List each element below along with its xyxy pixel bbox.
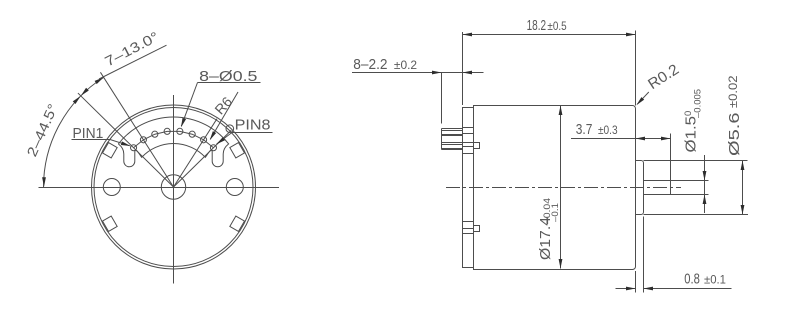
- 0.8 extension lines: [635, 271, 637, 293]
- front boss: [636, 161, 644, 215]
- inner circle housing ID: [94, 108, 253, 267]
- lower-right tab: [230, 216, 245, 231]
- dim line 7-13.0: [99, 45, 167, 79]
- PIN1 leader: [110, 140, 130, 146]
- arrow 44.5 arc top end: [81, 88, 89, 96]
- pin 1 circle: [131, 145, 137, 151]
- pin7 radial line: [174, 119, 218, 187]
- 8-O0.5 leader: [181, 83, 197, 127]
- 3.7 dimension line: [571, 138, 671, 140]
- pin2 radial line: [100, 72, 173, 187]
- svg-text:2–44.5°: 2–44.5°: [23, 101, 60, 159]
- lower tab side view: [474, 226, 480, 232]
- svg-text:–0.1: –0.1: [550, 203, 560, 222]
- svg-text:–0.005: –0.005: [693, 89, 704, 118]
- svg-text:±0.2: ±0.2: [394, 58, 418, 72]
- svg-text:0.8: 0.8: [684, 270, 700, 287]
- svg-text:±0.1: ±0.1: [704, 272, 726, 286]
- upper tab side view: [474, 143, 480, 149]
- svg-text:±0.02: ±0.02: [726, 75, 740, 108]
- R6 leader: [210, 92, 238, 139]
- angular dimension arc: [44, 77, 104, 187]
- arrow 13 arc lower end: [73, 96, 81, 104]
- 8-2.2 dimension line: [352, 72, 442, 74]
- left mounting hole: [103, 179, 120, 196]
- pins comb left edge: [441, 129, 443, 150]
- arrow 13 arc upper end: [95, 77, 104, 84]
- svg-text:7–13.0°: 7–13.0°: [102, 28, 161, 69]
- svg-text:8–2.2: 8–2.2: [353, 56, 387, 73]
- pin pitch polyline: [134, 131, 214, 147]
- 18.2 extension line left: [462, 32, 464, 105]
- svg-text:R6: R6: [211, 93, 235, 117]
- lower-left tab: [103, 216, 118, 231]
- outer circle motor housing OD: [92, 105, 256, 269]
- svg-text:3.7: 3.7: [576, 121, 593, 138]
- svg-text:Ø1.5: Ø1.5: [683, 116, 700, 153]
- PIN8 leader: [217, 133, 232, 145]
- vertical centerline front view: [173, 95, 175, 284]
- pin 2 circle: [140, 137, 146, 143]
- R0.2 leader: [637, 92, 649, 104]
- right mounting hole: [226, 179, 243, 196]
- rear end cap: [463, 108, 474, 268]
- pin1 radial line: [78, 93, 174, 187]
- pin 3 circle: [152, 131, 158, 137]
- 18.2 extension line right: [635, 31, 637, 106]
- svg-text:±0.3: ±0.3: [598, 123, 618, 137]
- pin 8 circle: [210, 145, 216, 151]
- shaft bottom line: [644, 194, 709, 196]
- arrow 44.5 arc bottom: [42, 177, 46, 187]
- O17.4 dimension line: [560, 106, 562, 269]
- shaft tip and 3.7 extension line: [670, 134, 672, 195]
- O5.6 dimension line: [742, 161, 744, 215]
- side view centerline: [446, 187, 681, 189]
- side view body: [474, 106, 636, 270]
- pin 6 circle: [189, 131, 195, 137]
- boss bottom extension line: [644, 214, 749, 216]
- 0.8 dimension line: [616, 288, 636, 290]
- svg-text:PIN8: PIN8: [235, 117, 271, 134]
- svg-text:18.2: 18.2: [527, 17, 547, 34]
- shaft circle: [161, 175, 185, 199]
- upper-right tab: [230, 143, 245, 158]
- horizontal centerline front view: [39, 187, 280, 189]
- keying notch: [226, 125, 234, 133]
- boss top extension line: [644, 160, 748, 162]
- pin 7 circle: [201, 137, 207, 143]
- pins comb lines: [442, 128, 463, 130]
- O1.5 dimension line: [704, 155, 706, 213]
- svg-text:Ø5.6: Ø5.6: [726, 113, 743, 157]
- pin 4 circle: [164, 128, 170, 134]
- svg-text:±0.5: ±0.5: [547, 19, 566, 33]
- pin 5 circle: [177, 128, 183, 134]
- upper-left tab: [103, 143, 118, 158]
- svg-text:R0.2: R0.2: [645, 61, 682, 93]
- connector recess slot: [118, 117, 228, 167]
- cap feature lines: [463, 127, 474, 129]
- 8-2.2 extension line: [441, 73, 443, 124]
- shaft top line: [644, 180, 709, 182]
- pin8 radial line: [174, 130, 232, 187]
- 18.2 dimension line: [463, 34, 636, 36]
